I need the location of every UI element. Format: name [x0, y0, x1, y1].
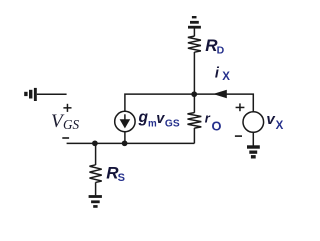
resistor RD — [188, 36, 201, 52]
arrow iX (pointing left on top wire) — [213, 90, 227, 99]
svg-text:GS: GS — [165, 118, 180, 129]
ground (gate, rotated left) — [24, 88, 37, 101]
wire rO to bottom wire — [193, 128, 195, 143]
svg-text:S: S — [118, 172, 125, 184]
wire drain node to rO — [193, 94, 195, 113]
ground (below RS) — [89, 195, 102, 208]
current source gm vGS (dependent) — [115, 111, 135, 131]
node RS tap — [92, 140, 98, 146]
minus sign (VGS) — [62, 137, 69, 139]
wire RD to drain node — [193, 52, 195, 94]
resistor RS — [90, 165, 102, 183]
svg-text:D: D — [217, 45, 225, 57]
wire bottom horizontal (source line) — [67, 142, 195, 144]
voltage source vX — [243, 112, 264, 133]
svg-text:X: X — [222, 71, 230, 83]
wire bottom wire to RS — [95, 143, 97, 165]
resistor rO — [188, 113, 202, 128]
wire ground to RD — [193, 29, 195, 37]
wire vX to ground — [252, 132, 254, 145]
wire gate — [37, 93, 67, 95]
wire RS to ground — [95, 182, 97, 195]
node dep source bottom — [122, 140, 128, 146]
wire dep source to bottom wire — [124, 132, 126, 144]
svg-text:X: X — [276, 120, 284, 132]
plus sign (VGS) — [63, 104, 71, 112]
ground (below vX) — [247, 145, 260, 158]
ground (top, above RD, flipped) — [188, 16, 201, 29]
plus sign (vX) — [236, 103, 245, 111]
wire top horizontal (dep source to drain node to vX corner) — [125, 94, 253, 112]
minus sign (vX) — [235, 135, 242, 137]
node drain junction — [191, 91, 197, 97]
svg-text:O: O — [212, 119, 222, 134]
svg-text:GS: GS — [63, 117, 80, 132]
svg-text:g: g — [138, 109, 149, 126]
